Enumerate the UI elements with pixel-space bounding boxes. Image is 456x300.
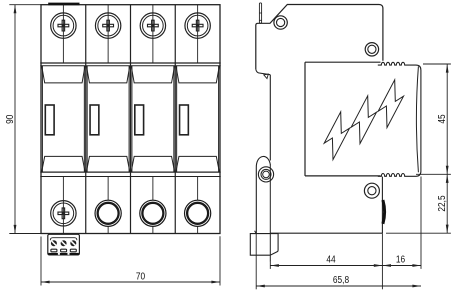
back plate outline: [256, 5, 383, 70]
top screw module 3: [140, 13, 165, 38]
dim 45 extension top: [423, 63, 451, 65]
module top castellation and right edge: [378, 62, 421, 176]
module bottom edge: [305, 175, 381, 177]
svg-text:16: 16: [396, 253, 405, 265]
arrows 90: [14, 5, 17, 14]
terminal block inner lip: [50, 238, 77, 241]
svg-text:44: 44: [326, 253, 335, 265]
module top edge: [305, 61, 381, 63]
module separator 2: [130, 5, 132, 234]
top band center line module 1: [62, 5, 64, 63]
mounting hole bottom-right: [364, 183, 379, 198]
clip arm through foot: [269, 165, 271, 262]
bottom band center line module 1: [62, 177, 64, 235]
clip spring tick: [255, 231, 257, 234]
dim 70 extension right: [219, 236, 221, 285]
clip notch: [256, 69, 270, 75]
top band center line module 2: [107, 5, 109, 63]
terminal block body: [48, 234, 80, 255]
bottom circle module 3: [140, 200, 166, 226]
bottom circle module 2: [95, 200, 121, 226]
latch bulge: [383, 200, 385, 224]
release tab on module 1 top: [48, 3, 79, 6]
arrows 45: [446, 64, 449, 73]
terminal slot 2: [61, 249, 67, 252]
base front bottom edge: [270, 232, 382, 234]
dim 70 extension left: [40, 237, 42, 286]
mounting hole top-left: [274, 16, 287, 29]
upper double line: [40, 62, 220, 64]
bottom band center line module 3: [152, 177, 154, 234]
arrows 22.5: [446, 174, 449, 183]
dim 65.8 extension left: [255, 233, 257, 289]
top pin: [259, 3, 261, 23]
module 1 mid face: [42, 66, 85, 172]
dim 16 extension right: [420, 177, 422, 269]
terminal slot 3: [70, 249, 76, 252]
mounting hole bottom-left: [258, 167, 273, 182]
arrows 44: [270, 264, 279, 267]
DIN rail foot: [250, 234, 278, 256]
dim 90 extension top: [9, 4, 41, 6]
lightning bolt 2: [351, 96, 376, 144]
terminal slot 1: [51, 249, 57, 252]
arrows 70: [41, 281, 50, 284]
svg-text:90: 90: [3, 115, 15, 124]
terminal screw 1: [51, 240, 57, 246]
dim 45/22.5 shared extension: [416, 173, 451, 175]
module 4 mid face: [176, 66, 219, 172]
clip right edge: [269, 75, 271, 161]
dim 90 extension bottom: [9, 233, 41, 235]
module side bow: [416, 66, 418, 172]
dim 45 line: [446, 64, 448, 174]
svg-text:45: 45: [435, 114, 447, 123]
svg-text:22,5: 22,5: [435, 195, 447, 211]
mounting hole top-right: [365, 43, 378, 56]
svg-text:70: 70: [136, 269, 145, 281]
arrows 16: [382, 264, 391, 267]
top screw module 4: [185, 13, 210, 38]
front view body outline: [41, 5, 220, 234]
dim 44 line: [270, 265, 382, 267]
top screw module 1: [51, 13, 76, 38]
bottom band center line module 2: [107, 177, 109, 234]
bottom band center line module 4: [197, 177, 199, 234]
dim 44 extension left: [269, 262, 271, 269]
lightning bolt 3: [378, 80, 403, 128]
dim 65.8 line: [256, 285, 421, 287]
clip hook: [256, 156, 270, 233]
module 2 mid face: [86, 66, 129, 172]
base front right edge: [381, 177, 383, 234]
dim 22.5 extension bottom: [386, 232, 451, 234]
dim 16 line: [382, 265, 421, 267]
module separator 1: [85, 5, 87, 234]
module separator 3: [174, 5, 176, 234]
bottom screw module 1: [51, 201, 76, 226]
lightning bolt 1: [324, 112, 349, 160]
terminal screw 2: [61, 240, 67, 246]
terminal screw 3: [70, 240, 76, 246]
module left edge: [304, 62, 306, 176]
top screw module 2: [95, 13, 120, 38]
top band center line module 3: [152, 5, 154, 63]
module 3 mid face: [131, 66, 174, 172]
svg-text:65,8: 65,8: [333, 273, 349, 285]
dim 90 line: [14, 5, 16, 234]
bottom circle module 4: [185, 200, 211, 226]
lower double line: [40, 171, 220, 173]
top band center line module 4: [197, 5, 199, 63]
dim 22.5 line: [446, 174, 448, 233]
terminal block base strip: [48, 253, 79, 255]
dim 44/16 shared extension: [381, 233, 383, 289]
dim 70 line: [41, 281, 220, 283]
arrows 65.8: [256, 285, 265, 288]
